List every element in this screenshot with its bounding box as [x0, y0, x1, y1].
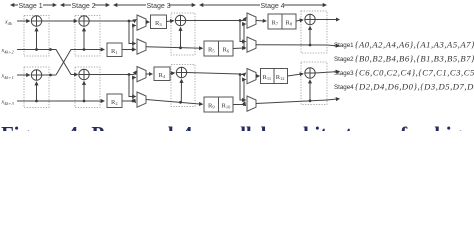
wire crossing diagonal up [56, 50, 75, 76]
stage1 dashed box lower [24, 67, 49, 108]
wire R2 output [122, 100, 133, 102]
svg-text:Stage 4: Stage 4 [261, 3, 285, 10]
register R3 [151, 15, 167, 29]
wire tap up to adder A2 [36, 82, 38, 101]
stage dimension line: Stage 3 [114, 3, 195, 10]
adder A2 [31, 70, 41, 80]
wire adder A3 output [89, 20, 129, 22]
adder A7 [305, 14, 315, 24]
stage order list line 2 [334, 54, 474, 64]
stage dimension line: Stage 4 [200, 3, 326, 10]
wire row4 through col2 [49, 100, 104, 102]
svg-text:{D2,D4,D6,D0},{D3,D5,D7,D1}: {D2,D4,D6,D0},{D3,D5,D7,D1} [355, 82, 474, 92]
mux M3 top [247, 13, 256, 28]
wire row3 input [17, 74, 30, 76]
wire tap up to adder A6 [180, 79, 182, 102]
wire adder A5 output [186, 20, 240, 22]
svg-text:Stage3: Stage3 [334, 70, 354, 77]
wire r1 to mux M3 top input [240, 18, 246, 21]
wire mux M3 bottom output into stage4 [256, 44, 327, 46]
junction tap col2 upper [83, 48, 86, 51]
stage dimension line: Stage 1 [11, 3, 56, 10]
wire mux M3 top output [256, 20, 266, 23]
wire R1 output [122, 49, 133, 51]
stage order list line 4 [334, 82, 474, 92]
wire r2 to mux M1 bottom input [133, 49, 136, 51]
stage2 dashed box upper [75, 16, 100, 57]
stage dimension line: Stage 2 [61, 3, 109, 10]
stage order list line 3 [334, 68, 474, 78]
svg-text:{C6,C0,C2,C4},{C7,C1,C3,C5}: {C6,C0,C2,C4},{C7,C1,C3,C5} [355, 68, 474, 78]
junction tap stage4 lower [309, 99, 312, 102]
junction tap stage3 upper [179, 46, 182, 49]
wire vertical r4 up to mux M2 top [133, 78, 136, 102]
adder A8 [305, 68, 315, 78]
mux M3 bottom [247, 37, 256, 52]
svg-text:R11: R11 [263, 74, 272, 81]
wire vertical r3 down to mux M4 bottom [240, 75, 246, 101]
wire R3 to adder A5 [167, 20, 174, 23]
svg-text:R4: R4 [159, 72, 166, 79]
register R7 [268, 14, 282, 29]
wire mux M2 top output [146, 73, 152, 75]
register R8 [282, 14, 296, 29]
wire R6 output [233, 47, 244, 50]
junction mux4 row3 [239, 73, 242, 76]
junction tap col1 upper [35, 48, 38, 51]
svg-text:R1: R1 [111, 48, 118, 55]
wire adder A6 output [187, 73, 240, 75]
register R12 [274, 69, 288, 84]
wire r1 to mux M1 top input [129, 20, 136, 22]
wire tap up to adder A5 [180, 27, 182, 47]
stage4 dashed box lower [301, 62, 327, 105]
adder A4 [79, 69, 89, 79]
wire output y4 [327, 99, 339, 100]
wire tap up to adder A3 [83, 28, 85, 50]
mux M4 top [247, 69, 256, 84]
junction mux1 row2 [132, 48, 135, 51]
junction tap col1 lower [35, 100, 38, 103]
wire tap up to adder A1 [36, 28, 38, 50]
junction tap stage4 upper [309, 44, 312, 47]
svg-text:R7: R7 [272, 20, 279, 27]
svg-text:R2: R2 [111, 99, 118, 106]
wire r2 to mux M3 bottom input [244, 47, 246, 49]
svg-text:Stage 3: Stage 3 [147, 3, 171, 10]
wire output y3 [315, 72, 339, 74]
wire r3 to mux M4 top input [240, 73, 246, 75]
svg-text:x4k+2: x4k+2 [1, 48, 15, 55]
junction tap col2 lower [83, 100, 86, 103]
figure caption [1, 124, 462, 145]
wire row1 input [17, 20, 30, 22]
svg-text:R5: R5 [208, 47, 215, 54]
wire crossing diagonal down [49, 50, 78, 75]
wire mux M4 top output [256, 75, 259, 77]
junction mux3 row2 [243, 47, 246, 50]
register R6 [219, 41, 234, 56]
mux M2 bottom [137, 92, 146, 107]
wire adder A1 output [42, 20, 75, 22]
wire mux M1 top output [146, 21, 149, 23]
wire tap up to adder A8 [309, 80, 311, 101]
wire vertical r2 up to mux M3 top [244, 24, 246, 48]
stage order list line 1 [334, 40, 474, 50]
adder A1 [31, 16, 41, 26]
svg-text:R8: R8 [286, 20, 293, 27]
wire vertical r1 down to mux M1 bottom [129, 21, 136, 44]
wire row2 input [17, 49, 49, 51]
svg-text:x4k: x4k [4, 20, 13, 27]
wire adder A2 output [42, 74, 56, 76]
svg-text:x4k+3: x4k+3 [1, 100, 15, 107]
mux M2 top [137, 67, 146, 82]
wire mux M4 bottom output into stage4 [256, 100, 327, 104]
register R4 [154, 67, 170, 81]
wire mux M2 bottom output to R9 [146, 100, 203, 105]
register R11 [261, 69, 275, 84]
svg-text:R3: R3 [155, 20, 162, 27]
junction mux4 row4 [243, 103, 246, 106]
wire tap up to adder A7 [309, 26, 311, 45]
junction mux2 row4 [132, 100, 135, 103]
register R10 [219, 97, 234, 112]
mux M1 bottom [137, 39, 146, 54]
junction mux1 row1 [128, 20, 131, 23]
wire adder A4 output [89, 74, 129, 76]
register R2 [107, 94, 122, 108]
svg-text:Stage1: Stage1 [334, 42, 354, 49]
wire output y2 [327, 45, 339, 46]
wire row4 input [17, 100, 49, 102]
wire vertical r1 down to mux M3 bottom [240, 21, 246, 42]
svg-text:Stage2: Stage2 [334, 56, 354, 63]
wire mux M1 bottom output to R5 [146, 47, 203, 49]
wire into adder A3 [75, 20, 77, 22]
stage1 dashed box upper [24, 16, 49, 57]
svg-text:R6: R6 [223, 47, 230, 54]
wire output y1 [315, 19, 339, 21]
svg-text:x4k+1: x4k+1 [1, 74, 14, 81]
wire r4 to mux M2 bottom input [133, 101, 136, 103]
svg-text:{B0,B2,B4,B6},{B1,B3,B5,B7}: {B0,B2,B4,B6},{B1,B3,B5,B7} [355, 54, 474, 64]
wire r4 to mux M4 bottom input [244, 105, 246, 106]
wire R12 to adder A8 [288, 74, 304, 76]
register R1 [107, 43, 122, 57]
adder A6 [176, 67, 186, 77]
register R9 [204, 97, 219, 112]
wire vertical r2 up to mux M1 top [133, 26, 136, 50]
junction mux3 row1 [239, 19, 242, 22]
wire tap up to adder A4 [83, 81, 85, 101]
mux M1 top [137, 15, 146, 30]
stage3 dashed box upper [171, 13, 195, 55]
wire row2 through col2 [75, 49, 104, 51]
adder A3 [79, 16, 89, 26]
wire r3 to mux M2 top input [129, 71, 136, 75]
svg-text:Stage 1: Stage 1 [19, 3, 43, 10]
junction mux2 row3 [128, 73, 131, 76]
svg-text:R9: R9 [208, 103, 215, 110]
junction crossing start row3 [49, 74, 52, 77]
wire vertical r4 up to mux M4 top [244, 80, 246, 105]
wire vertical r3 down to mux M2 bottom [129, 75, 136, 97]
wire R8 to adder A7 [296, 20, 303, 21]
wire R4 to adder A6 [170, 72, 175, 75]
adder A5 [175, 15, 185, 25]
wire R10 output [233, 104, 244, 106]
junction tap stage3 lower [179, 101, 182, 104]
svg-text:R10: R10 [222, 103, 232, 110]
stage2 dashed box lower [75, 67, 100, 108]
svg-text:Stage 2: Stage 2 [72, 3, 96, 10]
stage4 dashed box upper [301, 11, 327, 53]
svg-text:R12: R12 [276, 74, 285, 81]
stage3 dashed box lower [171, 65, 195, 107]
junction crossing start row2 [49, 48, 52, 51]
mux M4 bottom [247, 96, 256, 111]
register R5 [204, 41, 219, 56]
svg-text:Stage4: Stage4 [334, 84, 354, 91]
svg-text:{A0,A2,A4,A6},{A1,A3,A5,A7}: {A0,A2,A4,A6},{A1,A3,A5,A7} [355, 40, 474, 50]
